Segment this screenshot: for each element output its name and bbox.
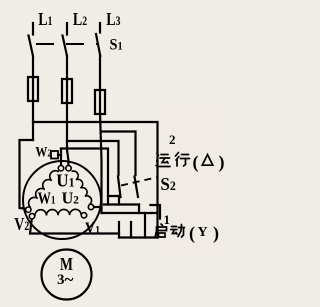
motor stator winding circle: [23, 161, 101, 239]
wire L1 down-left path to winding terminal V2: [20, 140, 34, 209]
wire line B from L3 junction to S2 right fixed contact: [101, 132, 136, 176]
label L2: [73, 11, 88, 30]
wire from V1 terminal to node: [94, 206, 102, 208]
label V2: [14, 216, 29, 235]
label L3: [106, 11, 121, 30]
dashed gang line of switch S1: [36, 43, 98, 45]
switch S1 blade pole 1: [29, 36, 34, 57]
switch S1 blade pole 3: [96, 34, 100, 56]
terminal lower-left: [29, 214, 34, 219]
wire L1 to fuse: [32, 56, 34, 78]
winding coil right (U phase): [72, 171, 92, 205]
fuse FU3: [95, 90, 105, 114]
motor label 3~: [57, 270, 74, 289]
paper background: [0, 0, 230, 307]
wire L3 to fuse: [99, 56, 101, 91]
wire L3 top stub: [99, 23, 101, 33]
terminal apex right: [66, 166, 71, 171]
label S2: [160, 174, 175, 195]
wire L2 below fuse to apex terminal: [67, 101, 68, 165]
label S1: [110, 36, 123, 54]
label 启 (start): [155, 224, 167, 238]
fuse FU1: [28, 77, 38, 101]
svg-text:Y: Y: [198, 225, 208, 240]
terminal U1 apex left: [58, 166, 63, 171]
wire L3 long drop to node H2: [100, 113, 102, 213]
svg-text:2: 2: [169, 132, 176, 147]
motor label M: [60, 255, 73, 274]
label U2: [62, 188, 80, 207]
svg-text:): ): [219, 152, 225, 173]
wire line D from U1 apex to S2 pivot bar: [61, 149, 108, 197]
label W2: [35, 143, 51, 160]
W2 terminal link: [51, 151, 58, 159]
dashed gang line of switch S2: [121, 177, 158, 186]
terminal V1 upper-right: [88, 204, 93, 209]
wire star bar prong a: [118, 222, 120, 238]
wire L1 top stub: [32, 23, 34, 35]
S2 pivot link bracket: [108, 196, 119, 205]
wire H2 bus: [102, 212, 158, 214]
label L1: [38, 11, 53, 30]
svg-text:): ): [213, 223, 219, 244]
winding coil left (W phase): [29, 171, 59, 208]
winding coil bottom (V phase): [35, 209, 81, 215]
fuse FU2: [62, 79, 72, 103]
wire U1 apex vertical: [60, 149, 62, 166]
svg-text:(: (: [189, 223, 195, 244]
svg-text:3~: 3~: [57, 270, 74, 289]
wire line C from L2 junction to S2 left fixed contact: [67, 141, 119, 175]
wire star bar prong b: [130, 222, 132, 238]
motor M circle: [42, 250, 92, 300]
wire drop H1 to H2: [138, 205, 140, 214]
wire L2 to fuse: [66, 56, 68, 80]
label 动 (start): [171, 225, 185, 238]
label delta: [202, 155, 213, 166]
label W1: [38, 189, 56, 208]
label V1: [85, 220, 100, 237]
svg-text:1: 1: [164, 212, 171, 227]
switch S2 right blade: [135, 177, 139, 198]
wire star chord from V2 terminal: [30, 219, 119, 234]
switch S1 blade pole 2: [63, 36, 68, 57]
switch S2 left blade: [118, 177, 121, 198]
wire drop H2 to star bar: [144, 213, 146, 238]
wire L2 top stub: [66, 23, 68, 35]
svg-text:(: (: [193, 152, 199, 173]
label U1: [56, 170, 74, 191]
terminal lower-right: [81, 213, 86, 218]
wire stub right of rail: [151, 205, 161, 219]
wire star bar (Y): [119, 236, 158, 238]
wire L1 below fuse: [32, 100, 34, 140]
label 行 (run): [176, 153, 190, 167]
wire line A from L1 junction to right rail: [33, 122, 158, 238]
terminal V2 upper-left: [26, 207, 31, 212]
wire H1 pivot bus: [104, 203, 139, 205]
wire W2 link lead: [58, 154, 61, 156]
label 运 (run): [156, 154, 170, 167]
